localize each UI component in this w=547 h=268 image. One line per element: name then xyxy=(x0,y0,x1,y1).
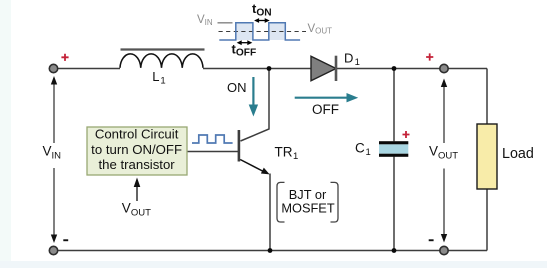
svg-text:BJT or: BJT or xyxy=(289,187,327,202)
svg-text:Control Circuit: Control Circuit xyxy=(95,126,179,141)
svg-text:ON: ON xyxy=(227,80,247,95)
svg-text:MOSFET: MOSFET xyxy=(281,201,335,216)
svg-text:Load: Load xyxy=(502,146,534,162)
svg-text:OFF: OFF xyxy=(312,102,339,117)
svg-text:the transistor: the transistor xyxy=(98,157,175,172)
svg-text:to turn ON/OFF: to turn ON/OFF xyxy=(91,142,182,157)
